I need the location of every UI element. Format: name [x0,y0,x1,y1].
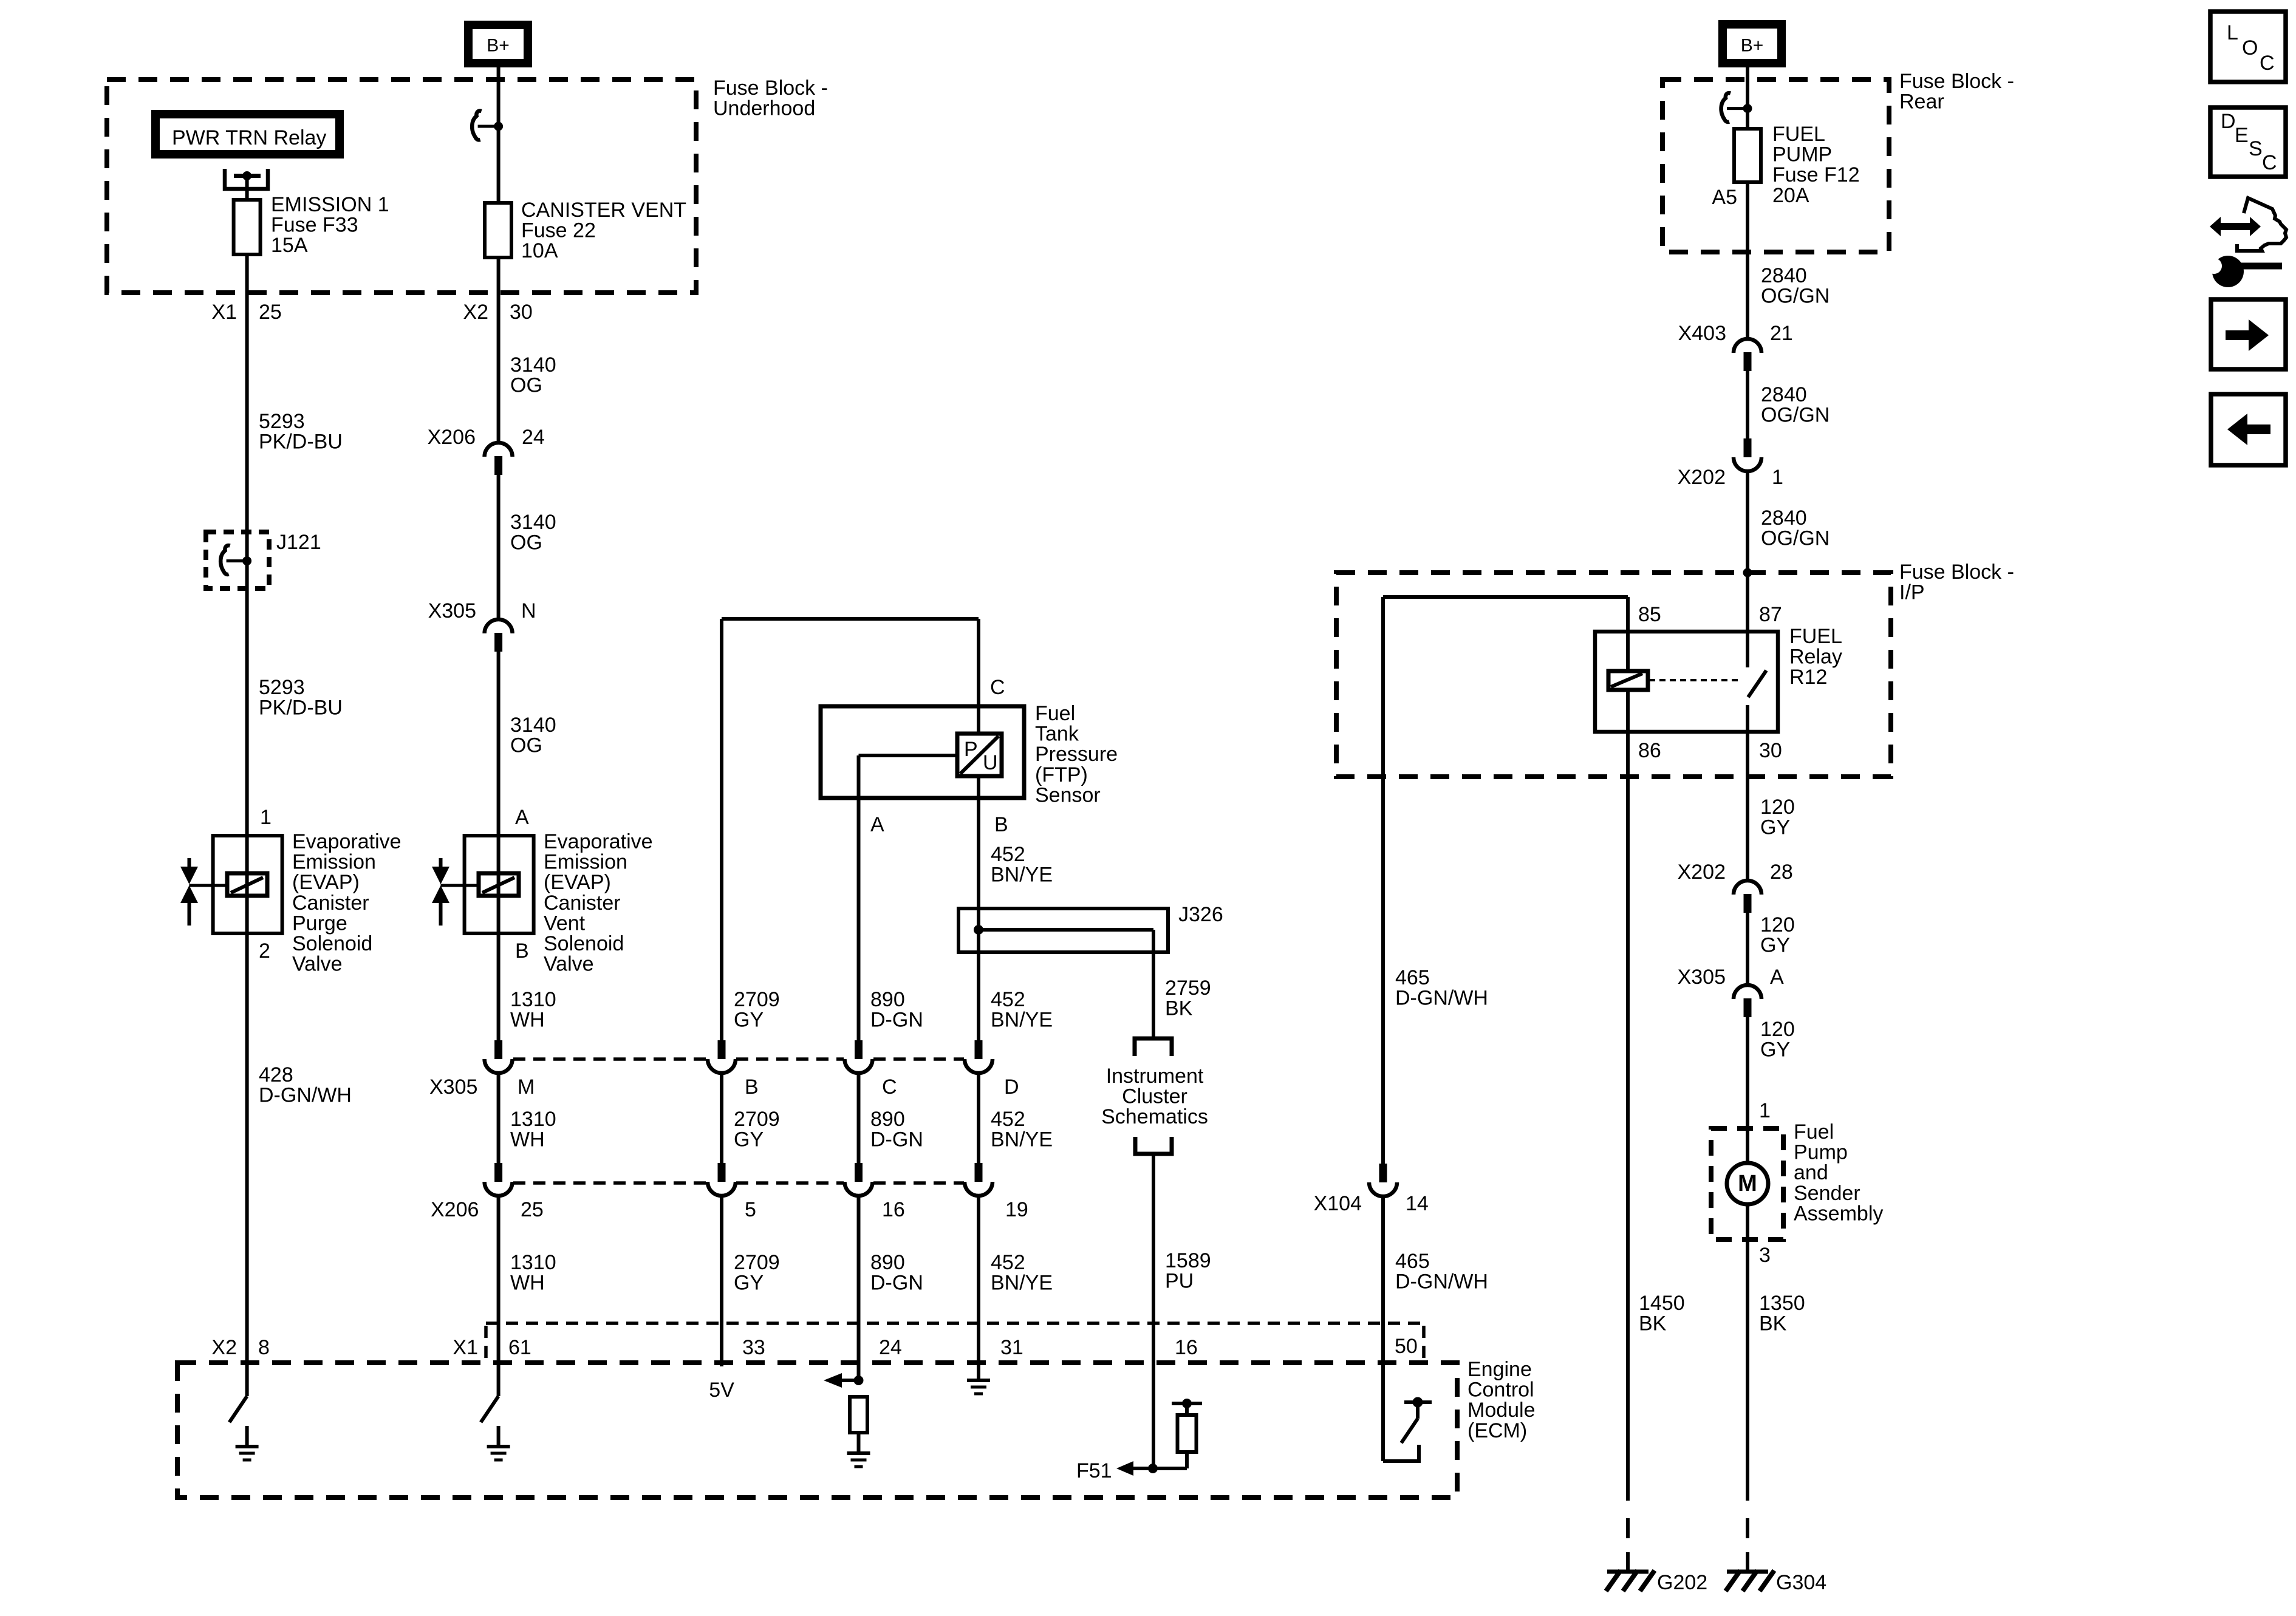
svg-text:28: 28 [1770,861,1793,884]
svg-text:A: A [515,806,529,829]
svg-text:Canister: Canister [292,892,369,915]
svg-text:Solenoid: Solenoid [544,932,624,955]
svg-text:X305: X305 [1678,966,1726,989]
svg-text:15A: 15A [271,234,308,257]
svg-text:428: 428 [259,1063,293,1086]
svg-text:D-GN: D-GN [870,1128,923,1151]
svg-text:Sensor: Sensor [1035,783,1101,806]
svg-text:Instrument: Instrument [1106,1065,1204,1088]
svg-text:X305: X305 [429,1076,477,1099]
svg-text:Control: Control [1467,1379,1534,1402]
svg-text:WH: WH [510,1128,545,1151]
svg-text:Underhood: Underhood [713,97,815,120]
svg-text:A: A [870,813,884,836]
svg-text:24: 24 [879,1336,902,1359]
svg-text:1350: 1350 [1759,1292,1805,1315]
svg-text:5: 5 [745,1198,756,1221]
svg-text:33: 33 [742,1336,765,1359]
svg-text:O: O [2242,36,2258,60]
svg-text:890: 890 [870,1108,905,1131]
svg-text:CANISTER VENT: CANISTER VENT [521,199,686,222]
svg-text:GY: GY [734,1009,764,1032]
svg-text:X2: X2 [211,1336,237,1359]
svg-text:3: 3 [1759,1244,1771,1267]
svg-text:452: 452 [991,1108,1025,1131]
svg-text:30: 30 [1759,739,1782,762]
svg-text:21: 21 [1770,322,1793,345]
svg-text:Pressure: Pressure [1035,743,1118,766]
svg-text:2840: 2840 [1761,383,1807,406]
svg-text:Engine: Engine [1467,1358,1532,1381]
svg-text:PK/D-BU: PK/D-BU [259,697,343,720]
svg-text:Schematics: Schematics [1101,1105,1208,1128]
svg-text:Canister: Canister [544,892,621,915]
svg-text:2840: 2840 [1761,506,1807,530]
svg-text:30: 30 [510,301,533,324]
svg-text:Valve: Valve [544,953,594,976]
svg-text:EMISSION 1: EMISSION 1 [271,193,389,216]
svg-text:OG/GN: OG/GN [1761,404,1830,427]
svg-text:Vent: Vent [544,912,586,935]
svg-text:2709: 2709 [734,1108,780,1131]
svg-text:X202: X202 [1678,861,1726,884]
svg-text:Solenoid: Solenoid [292,932,372,955]
svg-text:85: 85 [1638,603,1661,626]
svg-text:(FTP): (FTP) [1035,763,1088,786]
svg-text:Cluster: Cluster [1122,1085,1187,1108]
svg-text:5V: 5V [709,1379,734,1402]
svg-text:X1: X1 [453,1336,478,1359]
svg-text:25: 25 [521,1198,544,1221]
svg-text:D: D [2221,110,2236,133]
svg-text:2709: 2709 [734,988,780,1011]
svg-text:FUEL: FUEL [1772,123,1825,146]
svg-text:Fuse Block -: Fuse Block - [1899,561,2014,584]
svg-text:PUMP: PUMP [1772,143,1832,166]
svg-text:WH: WH [510,1009,545,1032]
svg-text:OG/GN: OG/GN [1761,285,1830,308]
svg-text:Evaporative: Evaporative [292,830,401,853]
svg-text:B+: B+ [487,36,510,56]
svg-text:Purge: Purge [292,912,347,935]
svg-text:50: 50 [1395,1335,1418,1358]
svg-text:31: 31 [1000,1336,1023,1359]
svg-text:Module: Module [1467,1399,1536,1422]
svg-text:86: 86 [1638,739,1661,762]
svg-text:452: 452 [991,1251,1025,1274]
svg-text:X206: X206 [431,1198,479,1221]
svg-text:16: 16 [882,1198,905,1221]
svg-text:F51: F51 [1076,1459,1112,1482]
svg-text:1310: 1310 [510,1108,556,1131]
svg-text:L: L [2227,21,2238,44]
svg-text:D-GN/WH: D-GN/WH [259,1084,352,1107]
svg-text:BK: BK [1165,997,1193,1020]
svg-text:B: B [994,813,1008,836]
svg-text:Fuse Block -: Fuse Block - [713,77,828,100]
svg-text:87: 87 [1759,603,1782,626]
svg-text:I/P: I/P [1899,581,1925,604]
svg-text:OG/GN: OG/GN [1761,527,1830,550]
svg-text:GY: GY [1760,816,1790,839]
svg-text:C: C [990,676,1005,699]
svg-text:OG: OG [510,531,542,554]
svg-text:Pump: Pump [1794,1141,1848,1164]
svg-text:X2: X2 [463,301,488,324]
svg-text:N: N [521,599,536,622]
svg-text:5293: 5293 [259,410,305,433]
svg-text:M: M [518,1076,535,1099]
svg-text:U: U [983,751,998,774]
svg-text:Valve: Valve [292,953,343,976]
svg-text:X202: X202 [1678,466,1726,489]
svg-text:GY: GY [734,1272,764,1295]
svg-text:19: 19 [1005,1198,1028,1221]
svg-text:Tank: Tank [1035,723,1079,746]
svg-text:A5: A5 [1712,186,1737,209]
svg-text:X104: X104 [1314,1192,1362,1215]
svg-text:GY: GY [1760,934,1790,957]
svg-text:24: 24 [522,426,545,449]
svg-text:D-GN: D-GN [870,1272,923,1295]
svg-text:BK: BK [1639,1312,1667,1335]
svg-text:2840: 2840 [1761,264,1807,287]
svg-text:R12: R12 [1789,666,1827,689]
svg-text:J326: J326 [1178,903,1223,926]
svg-text:A: A [1770,966,1784,989]
svg-text:BN/YE: BN/YE [991,1272,1053,1295]
svg-text:P: P [964,738,978,761]
svg-text:PU: PU [1165,1270,1194,1293]
svg-text:452: 452 [991,843,1025,866]
svg-text:3140: 3140 [510,353,556,377]
svg-text:D-GN: D-GN [870,1009,923,1032]
svg-text:C: C [2260,52,2275,75]
svg-text:(ECM): (ECM) [1467,1419,1527,1442]
svg-text:1589: 1589 [1165,1249,1211,1272]
svg-text:Emission: Emission [544,851,627,874]
svg-text:2: 2 [259,939,270,963]
svg-text:PWR TRN Relay: PWR TRN Relay [172,126,326,149]
svg-text:G202: G202 [1657,1571,1707,1594]
svg-text:1: 1 [1759,1099,1771,1122]
svg-text:890: 890 [870,1251,905,1274]
svg-text:X305: X305 [428,599,476,622]
svg-text:(EVAP): (EVAP) [292,871,360,894]
svg-text:Rear: Rear [1899,90,1944,114]
svg-text:G304: G304 [1776,1571,1826,1594]
svg-text:Fuse Block -: Fuse Block - [1899,70,2014,93]
svg-text:OG: OG [510,374,542,397]
svg-text:1450: 1450 [1639,1292,1685,1315]
svg-text:B: B [515,939,529,963]
svg-text:1: 1 [260,806,272,829]
svg-text:BK: BK [1759,1312,1787,1335]
svg-text:B: B [745,1076,759,1099]
svg-text:GY: GY [734,1128,764,1151]
svg-text:Fuse F33: Fuse F33 [271,214,358,237]
svg-text:and: and [1794,1161,1828,1184]
svg-text:5293: 5293 [259,676,305,699]
svg-text:452: 452 [991,988,1025,1011]
svg-text:X206: X206 [428,426,476,449]
svg-text:1310: 1310 [510,988,556,1011]
svg-text:14: 14 [1406,1192,1429,1215]
svg-text:B+: B+ [1741,36,1764,56]
svg-text:Fuel: Fuel [1794,1120,1834,1144]
svg-text:8: 8 [258,1336,270,1359]
svg-text:890: 890 [870,988,905,1011]
svg-text:X1: X1 [211,301,237,324]
svg-text:D: D [1004,1076,1019,1099]
svg-text:10A: 10A [521,239,558,262]
svg-text:FUEL: FUEL [1789,625,1842,648]
svg-text:S: S [2249,137,2263,160]
svg-text:Sender: Sender [1794,1182,1860,1205]
svg-text:465: 465 [1395,966,1430,989]
svg-text:120: 120 [1760,913,1795,936]
svg-text:Relay: Relay [1789,646,1842,669]
svg-text:Evaporative: Evaporative [544,830,653,853]
svg-text:25: 25 [259,301,282,324]
svg-text:1310: 1310 [510,1251,556,1274]
svg-text:GY: GY [1760,1038,1790,1062]
svg-text:120: 120 [1760,796,1795,819]
svg-text:120: 120 [1760,1018,1795,1041]
svg-text:16: 16 [1175,1336,1198,1359]
svg-text:WH: WH [510,1272,545,1295]
svg-text:BN/YE: BN/YE [991,1009,1053,1032]
svg-text:D-GN/WH: D-GN/WH [1395,1270,1488,1294]
svg-text:Assembly: Assembly [1794,1202,1883,1225]
svg-text:Fuse F12: Fuse F12 [1772,163,1860,186]
svg-text:Fuel: Fuel [1035,702,1075,725]
svg-text:20A: 20A [1772,184,1809,207]
svg-text:2709: 2709 [734,1251,780,1274]
svg-text:E: E [2235,124,2249,147]
svg-text:465: 465 [1395,1250,1430,1273]
svg-text:OG: OG [510,734,542,757]
svg-text:D-GN/WH: D-GN/WH [1395,987,1488,1010]
svg-text:C: C [882,1076,897,1099]
svg-text:61: 61 [508,1336,531,1359]
svg-text:(EVAP): (EVAP) [544,871,611,894]
svg-text:3140: 3140 [510,714,556,737]
svg-text:Emission: Emission [292,851,376,874]
svg-text:BN/YE: BN/YE [991,1128,1053,1151]
svg-text:J121: J121 [276,531,321,554]
svg-text:Fuse 22: Fuse 22 [521,219,596,242]
svg-text:3140: 3140 [510,511,556,534]
svg-text:1: 1 [1772,466,1783,489]
svg-text:C: C [2262,151,2277,174]
svg-text:BN/YE: BN/YE [991,864,1053,887]
svg-text:M: M [1738,1171,1757,1196]
svg-text:PK/D-BU: PK/D-BU [259,431,343,454]
svg-text:X403: X403 [1678,322,1726,345]
svg-text:2759: 2759 [1165,977,1211,1000]
